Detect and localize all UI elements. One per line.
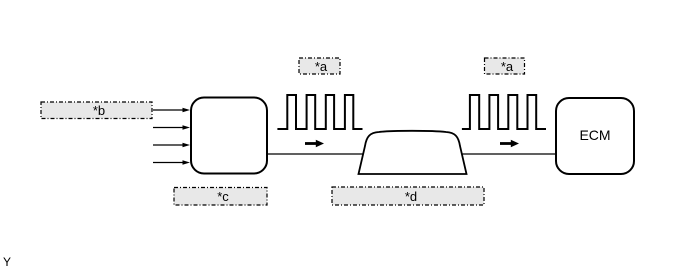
label box *b — [41, 102, 152, 119]
label box *c — [174, 188, 267, 206]
converter box *c — [191, 98, 267, 174]
label box *d — [332, 187, 484, 205]
input arrow 3 — [153, 143, 190, 148]
ECM box — [556, 98, 634, 174]
svg-text:*a: *a — [501, 59, 514, 74]
label box *a (left) — [299, 58, 340, 74]
label box *a (right) — [485, 58, 525, 74]
input arrow 2 — [153, 125, 190, 130]
svg-text:Y: Y — [3, 255, 11, 269]
bold arrow right — [500, 140, 519, 148]
waveform left — [277, 95, 362, 129]
waveform right — [462, 95, 546, 129]
svg-text:*c: *c — [217, 189, 229, 204]
bold arrow left — [305, 140, 324, 148]
svg-text:*d: *d — [405, 189, 417, 204]
svg-text:ECM: ECM — [579, 127, 610, 143]
svg-text:*a: *a — [315, 59, 328, 74]
input arrow 4 — [153, 160, 190, 165]
connector shape *d — [359, 131, 467, 174]
wire from converter to ECM — [266, 153, 556, 155]
svg-text:*b: *b — [93, 103, 105, 118]
input arrow 1 — [153, 108, 190, 113]
